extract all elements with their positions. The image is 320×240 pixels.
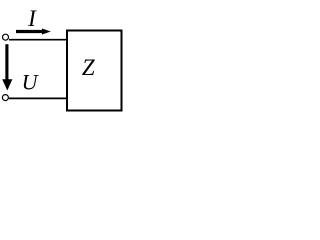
current arrow I (head)	[42, 29, 51, 35]
impedance box Z	[67, 31, 122, 111]
svg-text:Z: Z	[82, 55, 95, 80]
wire top (terminal to box)	[9, 39, 67, 41]
terminal bottom (open circle)	[2, 95, 8, 101]
wire bottom (terminal to box)	[9, 97, 67, 99]
svg-text:U: U	[22, 69, 40, 94]
voltage arrow U (head)	[2, 79, 12, 90]
terminal top (open circle)	[3, 34, 9, 40]
svg-text:I: I	[27, 6, 37, 31]
current arrow I (shaft)	[16, 30, 44, 33]
voltage arrow U (shaft)	[5, 44, 8, 81]
